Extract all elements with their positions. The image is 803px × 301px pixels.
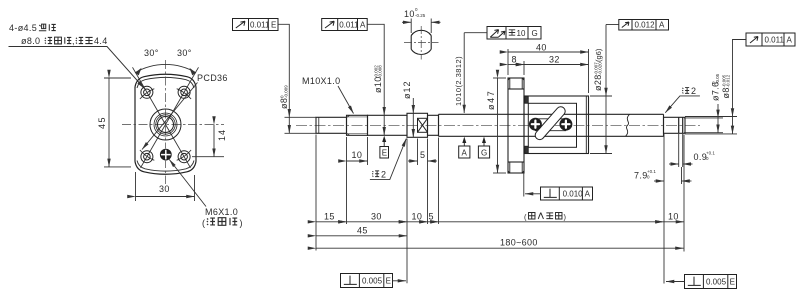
svg-text:): ) — [240, 218, 243, 228]
svg-text:E: E — [730, 278, 735, 287]
central bore circles — [150, 109, 181, 140]
svg-text:A: A — [659, 20, 665, 29]
ball screw shaft body — [439, 114, 664, 136]
label M10X1.0 with leader — [302, 76, 354, 114]
svg-text:-0.012: -0.012 — [726, 74, 731, 87]
nut body — [524, 96, 589, 154]
svg-text:0.010: 0.010 — [563, 190, 584, 199]
dim row1 10 right — [664, 211, 685, 222]
M6 oil hole — [160, 149, 172, 161]
cross-hatched wrench flat box — [418, 118, 428, 132]
dim 8 and 32 — [508, 55, 589, 76]
extension lines bottom chain — [316, 135, 684, 284]
svg-text:10: 10 — [352, 150, 363, 160]
svg-text:-0.020: -0.020 — [598, 62, 603, 75]
stub end chamfer — [318, 117, 320, 133]
bolt hole upper-left — [141, 86, 153, 98]
hardening range text — [524, 213, 567, 222]
FCF perpendicularity 0.005 E right — [666, 275, 737, 289]
neck section — [428, 115, 439, 135]
svg-text:A: A — [787, 35, 793, 44]
svg-text:2: 2 — [381, 170, 386, 180]
FCF runout 0.011 A right — [733, 33, 796, 60]
bolt hole upper-right — [178, 86, 190, 98]
svg-text:G: G — [532, 29, 538, 38]
section view circle with flats — [402, 7, 441, 60]
bolt hole lower-right — [178, 151, 190, 163]
note top-left line1 4-phi4.5 through hole — [9, 23, 56, 33]
dim row1 10 — [407, 211, 428, 222]
svg-text:E: E — [271, 20, 276, 29]
FCF runout 0.011 E — [233, 19, 290, 33]
svg-text:5: 5 — [420, 150, 425, 160]
svg-text:30°: 30° — [177, 48, 192, 58]
svg-text:30: 30 — [159, 184, 170, 194]
svg-text:PCD36: PCD36 — [197, 73, 228, 83]
svg-text:-0.009: -0.009 — [284, 85, 289, 98]
30 degree dimension arcs — [135, 48, 196, 75]
dimension 14 right of front view — [192, 125, 227, 157]
dim phi10 with tolerance — [373, 32, 384, 135]
svg-text:G: G — [481, 148, 487, 157]
nut ring notch bottom — [525, 146, 528, 153]
svg-text:45: 45 — [97, 116, 107, 129]
svg-text:-0.05: -0.05 — [715, 73, 720, 84]
note top-left line2 phi8.0 counterbore depth 4.4 — [21, 36, 108, 46]
retaining ring groove — [679, 117, 683, 133]
nut flat face block — [528, 103, 576, 147]
dim row1 hardening span — [439, 221, 664, 223]
svg-text:0.005: 0.005 — [706, 278, 727, 287]
note2 label left — [370, 139, 406, 180]
svg-text:-0.008: -0.008 — [378, 65, 383, 78]
dim phi7.6 — [684, 73, 723, 132]
datum G — [478, 137, 489, 158]
svg-text:0.005: 0.005 — [362, 277, 383, 286]
dim row3 180-600 — [316, 238, 684, 249]
break squiggle — [626, 114, 630, 136]
svg-text:4-ø4.5: 4-ø4.5 — [9, 23, 37, 33]
dimension 30 below front view — [136, 172, 195, 201]
dim phi8 right with tolerance — [685, 60, 737, 134]
svg-text:0.011: 0.011 — [339, 20, 359, 29]
svg-text:10: 10 — [668, 211, 679, 221]
dim 0.9 groove width — [669, 134, 715, 167]
svg-text:180~600: 180~600 — [500, 238, 538, 248]
dim row1 30 — [347, 211, 408, 222]
dim phi28 with tolerance — [590, 25, 612, 154]
return tube capsule — [533, 105, 567, 142]
screw right on nut — [560, 118, 572, 130]
svg-text:A: A — [585, 190, 591, 199]
dimension 45 left of front view — [97, 78, 131, 167]
end journal phi8 — [664, 117, 686, 133]
FCF runout 0.011 A — [322, 19, 385, 33]
svg-text:1010(2.3812): 1010(2.3812) — [454, 56, 463, 106]
svg-text:30: 30 — [371, 211, 382, 221]
svg-text:ø12: ø12 — [402, 80, 412, 99]
svg-text:M6X1.0: M6X1.0 — [205, 207, 238, 217]
svg-text:32: 32 — [549, 55, 560, 65]
svg-text:A: A — [360, 20, 366, 29]
dim row1 5 — [428, 211, 439, 222]
svg-text:0.011: 0.011 — [250, 20, 270, 29]
svg-text:ø8.0: ø8.0 — [21, 36, 40, 46]
PCD36 label and leader — [142, 73, 228, 150]
svg-text:-0.25: -0.25 — [415, 13, 426, 18]
svg-text:ø8: ø8 — [721, 87, 731, 98]
nut flange side view — [508, 78, 524, 173]
svg-text:30°: 30° — [144, 48, 159, 58]
FCF total runout table10 G — [464, 27, 541, 40]
svg-text:4.4: 4.4 — [94, 36, 108, 46]
svg-text:0.012: 0.012 — [635, 20, 656, 29]
svg-text:10: 10 — [412, 211, 423, 221]
dim row1 15 — [316, 211, 347, 222]
svg-text:40: 40 — [536, 43, 547, 53]
shaft phi12 section — [407, 113, 428, 137]
dim 40 — [508, 43, 589, 94]
M6X1.0 oil hole label — [169, 160, 243, 229]
nut ring notch top — [525, 96, 528, 103]
PCD spider radial lines — [133, 67, 199, 168]
dim phi8 left with tolerance — [279, 32, 316, 133]
clamp plate between screws — [535, 119, 566, 131]
leader from total runout frame down to screw — [463, 33, 465, 113]
bolt hole lower-left — [141, 151, 153, 163]
svg-text:A: A — [462, 148, 468, 157]
FCF perpendicularity 0.005 E left — [341, 274, 407, 288]
svg-text:(g6): (g6) — [594, 48, 603, 62]
dim row2 45 — [316, 225, 407, 236]
svg-text:8: 8 — [512, 55, 517, 65]
datum E — [380, 136, 389, 158]
svg-text:,: , — [72, 36, 75, 46]
svg-text:E: E — [386, 277, 391, 286]
svg-text:0.011: 0.011 — [765, 35, 785, 44]
svg-text:E: E — [382, 149, 387, 158]
svg-text:+0.1: +0.1 — [706, 151, 715, 156]
note2 label right — [665, 86, 700, 113]
datum A — [459, 137, 470, 158]
svg-text:ø28: ø28 — [593, 74, 603, 91]
svg-text:14: 14 — [217, 129, 227, 141]
leader for counterbore note — [9, 47, 145, 89]
flange front centerlines — [122, 60, 224, 184]
shaft centerline — [296, 124, 700, 126]
dim phi47 — [486, 78, 506, 173]
PCD arc ticks through holes — [140, 89, 191, 161]
svg-text:10: 10 — [517, 29, 526, 38]
FCF runout 0.012 A — [606, 20, 669, 31]
shaft M10 thread section — [347, 115, 368, 135]
screw left on nut — [529, 118, 541, 130]
svg-text:(: ( — [202, 218, 205, 228]
svg-text:ø8: ø8 — [279, 98, 289, 109]
flange front view outline — [135, 74, 196, 174]
svg-text:ø47: ø47 — [486, 90, 496, 110]
FCF perpendicularity 0.010 A — [524, 173, 593, 200]
svg-text:10: 10 — [404, 9, 415, 19]
dim 10 thread length with E — [347, 137, 368, 224]
svg-text:45: 45 — [357, 225, 368, 235]
shaft phi8 stub section — [316, 117, 347, 133]
dim 5 wrench flat — [408, 139, 437, 166]
svg-text:7.9: 7.9 — [634, 171, 648, 181]
dim phi12 — [402, 80, 413, 137]
shaft phi10 journal section — [368, 115, 408, 135]
svg-text:2: 2 — [691, 86, 696, 96]
svg-text:5: 5 — [429, 211, 434, 221]
svg-text:15: 15 — [324, 211, 335, 221]
svg-text:M10X1.0: M10X1.0 — [302, 76, 340, 86]
dim 7.9 groove position — [634, 134, 692, 284]
svg-text:+0.1: +0.1 — [647, 169, 656, 174]
